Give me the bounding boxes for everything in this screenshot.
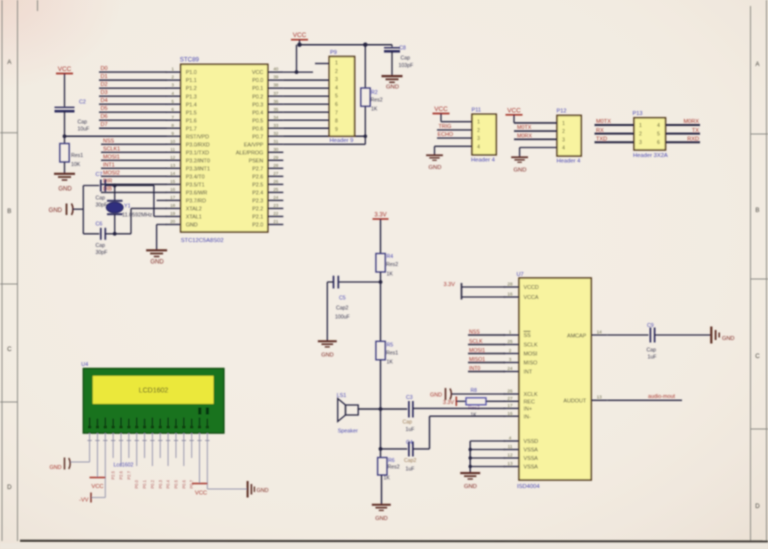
wire P3.7 stub (157, 199, 167, 201)
net -VV (LCD VL) (79, 493, 105, 504)
wire P0.7 pullup (283, 135, 365, 137)
part number STC12C5A8S02 (181, 238, 224, 244)
designator STC89 (180, 57, 200, 64)
connector P12 Header 4 body (557, 115, 581, 156)
power VCC (top) (291, 32, 308, 45)
designator P9 (330, 50, 337, 56)
junction speaker node (379, 407, 383, 411)
capacitor C3 1uF (IN+) (403, 395, 506, 433)
junction crystal bottom (113, 232, 117, 236)
ground (P12) (511, 157, 528, 173)
wire MCU GND pin (157, 224, 167, 250)
LCD pin markings (88, 408, 209, 429)
designator U7 (517, 272, 524, 278)
ground (C5) (318, 341, 337, 358)
IC U1 STC89 (STC12C5A8S02) MCU body and pins (166, 64, 284, 232)
designator P13 (633, 111, 643, 117)
wire LCD pin16 to ground (207, 488, 246, 490)
label Header 9 (330, 138, 354, 144)
ground (C8) (382, 76, 403, 90)
ground (MCU) (146, 250, 167, 265)
wire crystal left rail (82, 186, 84, 234)
net labels M0TX RX TXD M0RX TX RXD (596, 119, 699, 142)
wire RST to MCU pin 9 (65, 135, 167, 137)
wires VSSD/VSSA (470, 441, 505, 473)
wire AMCAP (607, 334, 648, 336)
junction VCC pin40 (295, 70, 299, 74)
label Header 4 (P11) (471, 158, 496, 164)
junction crystal top (113, 184, 117, 188)
wire P11 pin4 to ground (435, 146, 473, 155)
wire speaker output (358, 408, 407, 410)
wire M0RX (514, 133, 557, 139)
capacitor C2 10uF (55, 100, 90, 137)
ground (AMCAP) (711, 327, 734, 344)
power 3.3V (ISD supply) (443, 282, 505, 300)
net label Lcd1602 (114, 463, 134, 469)
ground (ISD VSS) (460, 473, 480, 490)
wire VCC rail (300, 44, 393, 46)
junction VSSA 1 (469, 448, 472, 451)
net labels LCD data (rotated) (111, 470, 195, 488)
wire IN- branch (381, 409, 408, 449)
wire VCC to MCU pin40 (283, 45, 313, 72)
designator P12 (557, 109, 567, 115)
wires LCD pins (87, 433, 209, 497)
wire ECHO (437, 132, 472, 138)
resistor R8 Res2 1K (REC) (466, 388, 505, 418)
wire M0TX (514, 125, 557, 131)
connector P13 Header 3X2A body (634, 118, 666, 150)
capacitor C6 30pF (83, 222, 114, 257)
designator P11 (472, 108, 482, 114)
wire TRIG (437, 124, 472, 130)
net label audio-mout (648, 394, 675, 400)
part label ISD4004 (517, 484, 540, 490)
wire bus P1 data lines (99, 72, 167, 128)
ground (XCLK tie) (430, 388, 505, 400)
junction P0.7 (364, 134, 368, 138)
resistor R5 Res1 1K (376, 341, 398, 409)
resistor R2 Res2 1K (361, 45, 383, 145)
IC U7 pins (504, 282, 608, 471)
wires P3 port nets (101, 144, 167, 192)
wires P0.0-P0.6 to header P9 (283, 80, 329, 128)
wire XTAL1 (115, 186, 167, 217)
resistor R6 Res2 1K (bottom) (378, 449, 400, 505)
power VCC (P11) (433, 106, 473, 122)
junction VSSA 2 (469, 456, 472, 459)
wire P12 pin4 to ground (520, 148, 557, 158)
capacitor C5 Cap2 100uF (327, 276, 380, 341)
connector P9 Header 9 body (329, 57, 354, 137)
LCD module U4 body (83, 369, 224, 434)
wires SPI to ISD (468, 335, 505, 372)
net labels NSS SCLK1 MOSI1 INT1 MOSI2 DIR DIB (103, 138, 120, 192)
ground (LCD pin1) (50, 458, 71, 472)
ground (reset) (54, 174, 75, 193)
capacitor C9 1uF (AMCAP) (647, 323, 711, 361)
designator U4 (81, 362, 88, 368)
power VCC (LCD backlight) (192, 484, 208, 497)
power VCC (LCD VDD) (90, 478, 106, 491)
capacitor C8 103pF (384, 45, 413, 76)
label Header 4 (P12) (557, 159, 582, 165)
crystal Y1 11.0592MHz (106, 186, 152, 234)
IC U7 ISD4004 body (519, 278, 591, 480)
ground (P11) (426, 155, 443, 171)
resistor Res1 10K (60, 136, 83, 173)
junction VCC rail left (297, 43, 301, 47)
power VCC (reset) (56, 66, 73, 107)
capacitor C4 1uF (IN-) (404, 416, 505, 472)
power VCC (P12) (506, 107, 558, 123)
junction bias node (379, 280, 383, 284)
resistor R4 Res2 1K (376, 254, 398, 342)
junction IN- branch (379, 447, 383, 451)
net labels D0-D7 (101, 66, 108, 128)
ground (crystal) (49, 204, 84, 216)
net labels SPI (469, 329, 485, 372)
junction RST node (63, 134, 67, 138)
speaker LS1 (337, 393, 359, 435)
wire LCD pin1 to ground (71, 461, 90, 463)
ground (R6) (372, 505, 391, 522)
junction VCC rail right (363, 43, 367, 47)
capacitor C7 30pF (83, 172, 114, 209)
power 3.3V (REC pullup) (443, 397, 466, 407)
wire P9 pin1 stub (315, 63, 329, 65)
wire EA/VPP to VCC (283, 143, 365, 145)
wire AUDOUT (607, 399, 682, 401)
label Header 3X2A (633, 153, 668, 159)
connector P11 Header 4 body (472, 114, 496, 155)
wire XTAL2 (115, 208, 167, 233)
ground (LCD backlight) (248, 481, 269, 498)
junction VSSA 3 (469, 465, 472, 468)
wires P13 serial (595, 125, 701, 142)
power 3.3V (mic bias) (373, 213, 389, 254)
